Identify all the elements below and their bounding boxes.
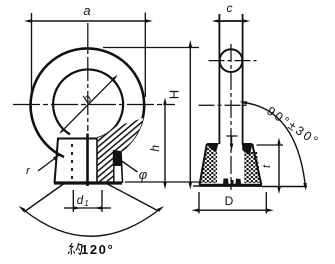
dimension c: [215, 20, 247, 22]
120 degree arc: [25, 211, 159, 237]
ring inner circle: [53, 69, 123, 138]
right view base thick: [199, 184, 262, 187]
svg-text:120°: 120°: [81, 242, 114, 257]
dimension h: [164, 105, 166, 182]
120 degree cone angle left slant: [24, 184, 64, 213]
nut body base: [54, 181, 122, 184]
svg-text:D: D: [225, 194, 234, 208]
dimension b diagonal: [65, 80, 113, 128]
right view body left wall: [200, 144, 207, 184]
nut body top edge: [57, 138, 98, 140]
right view baseline extension left: [193, 185, 199, 187]
120 degree cone angle right slant: [108, 184, 158, 211]
right view body right flank stipple: [244, 150, 261, 183]
ring outer circle: [31, 48, 145, 157]
hatched section of ring and body: [97, 118, 143, 183]
nut body left wall: [55, 139, 59, 184]
right view ring profile left line: [218, 14, 220, 144]
right view vertical centerline: [230, 44, 232, 190]
right view baseline extension right: [262, 186, 307, 188]
horizontal centerline left view: [13, 104, 175, 106]
dimension t: [257, 144, 284, 146]
90 deg 30 deg angle arc: [247, 103, 305, 183]
svg-text:H: H: [167, 90, 182, 99]
bottom centre marks: [223, 179, 229, 185]
section boundary bold line at axis: [86, 134, 89, 187]
dimension d1: [72, 190, 74, 212]
vertical centerline left view: [87, 23, 89, 131]
svg-text:a: a: [83, 3, 90, 18]
solid wedge at ring/body junction: [113, 150, 123, 166]
dimension H: [103, 47, 199, 49]
leader phi: [120, 160, 138, 173]
right view circle horizontal centerline: [209, 60, 257, 62]
right view ring hole circle: [220, 49, 243, 72]
svg-text:h: h: [148, 145, 162, 152]
leader r: [38, 159, 54, 171]
right view body top edge left segment: [207, 143, 219, 145]
hidden thread line dashes: [71, 144, 73, 182]
section strip right edge: [113, 150, 115, 183]
svg-text:1: 1: [84, 199, 88, 208]
dimension D: [198, 192, 200, 214]
hole wall line in section: [96, 139, 98, 183]
dimension a: [31, 13, 33, 97]
right view top corner shade left: [207, 145, 218, 153]
svg-text:c: c: [227, 1, 233, 15]
right view main horizontal centerline: [199, 104, 247, 106]
svg-text:φ: φ: [139, 167, 148, 182]
right view ring profile right line: [242, 14, 244, 144]
nut body right wall: [121, 152, 123, 183]
right view top corner shade right: [242, 144, 252, 156]
right view body left flank stipple: [200, 146, 217, 183]
right view body top edge right segment: [242, 143, 253, 145]
center depth tick: [227, 135, 238, 137]
kanji yaku (approx.) hand drawn: [68, 243, 82, 255]
svg-text:d: d: [77, 195, 84, 207]
right view body right wall: [252, 144, 261, 184]
